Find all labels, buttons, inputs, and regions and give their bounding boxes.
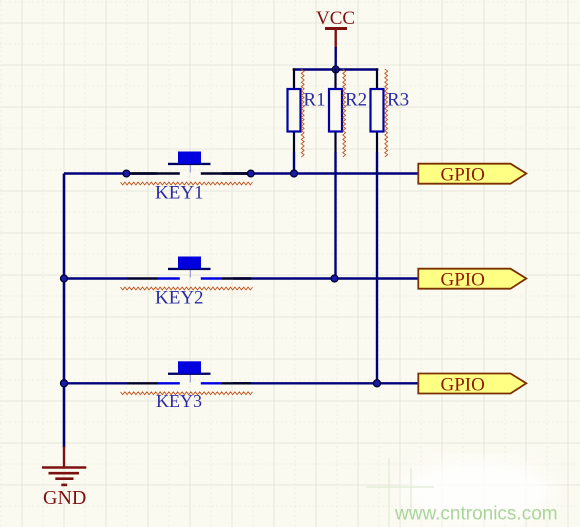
svg-text:VCC: VCC bbox=[316, 8, 355, 29]
wire KEY1 row overlap dark segment left bbox=[127, 172, 158, 174]
junction R3/KEY3 row bbox=[374, 380, 381, 387]
svg-text:GPIO: GPIO bbox=[441, 270, 485, 291]
svg-text:R2: R2 bbox=[345, 90, 367, 111]
wire KEY3 row left segment bbox=[64, 382, 127, 384]
wire KEY1 row left segment bbox=[64, 172, 127, 174]
resistor R2 bbox=[329, 68, 342, 278]
junction left bus/KEY3 row bbox=[61, 380, 68, 387]
wire VCC stem bbox=[335, 47, 337, 70]
resistor R3 bbox=[371, 68, 384, 383]
pin dot KEY1 left terminal bbox=[123, 170, 130, 177]
wire KEY1 row right segment bbox=[233, 172, 419, 174]
resistor R1 bbox=[288, 68, 301, 173]
pushbutton KEY1 bbox=[127, 152, 251, 174]
svg-text:KEY2: KEY2 bbox=[155, 288, 204, 309]
wire top bus bbox=[293, 68, 379, 71]
watermark backdrop glow bbox=[403, 460, 553, 524]
wire KEY3 row overlap dark segment right bbox=[222, 382, 251, 384]
junction R2/KEY2 row bbox=[331, 275, 338, 282]
svg-text:GPIO: GPIO bbox=[441, 374, 485, 395]
port GPIO3 bbox=[418, 374, 526, 394]
port GPIO2 bbox=[418, 269, 526, 289]
svg-text:GND: GND bbox=[43, 487, 86, 509]
wire KEY2 row overlap dark segment right bbox=[222, 277, 251, 279]
svg-text:www.cntronics.com: www.cntronics.com bbox=[394, 504, 558, 525]
svg-text:R3: R3 bbox=[387, 90, 409, 111]
compile-mask zigzag at R1 bbox=[301, 69, 304, 157]
watermark logo lines bbox=[366, 458, 434, 527]
power symbol VCC bbox=[325, 29, 347, 49]
pin dot KEY1 right terminal bbox=[247, 170, 254, 177]
compile-mask zigzag under KEY1 bbox=[121, 182, 253, 185]
port GPIO1 bbox=[418, 164, 526, 184]
wire KEY1 row overlap dark segment right bbox=[222, 172, 251, 174]
junction R1/KEY1 row bbox=[291, 170, 298, 177]
compile-mask zigzag at R2 bbox=[343, 69, 346, 157]
pushbutton KEY3 bbox=[158, 361, 223, 383]
wire KEY2 row left segment bbox=[64, 277, 127, 279]
junction left bus/KEY2 row bbox=[61, 275, 68, 282]
ground symbol GND bbox=[42, 447, 86, 485]
wire left bus bbox=[63, 174, 66, 448]
wire KEY2 row right segment bbox=[233, 277, 419, 279]
svg-text:KEY1: KEY1 bbox=[155, 183, 204, 204]
compile-mask zigzag under KEY2 bbox=[121, 287, 253, 290]
svg-text:R1: R1 bbox=[303, 90, 325, 111]
wire KEY2 row overlap dark segment left bbox=[127, 277, 158, 279]
wire KEY3 row overlap dark segment left bbox=[127, 382, 158, 384]
compile-mask zigzag at R3 bbox=[385, 69, 388, 157]
wire KEY3 row right segment bbox=[233, 382, 419, 384]
svg-text:KEY3: KEY3 bbox=[156, 391, 202, 411]
pushbutton KEY2 bbox=[158, 257, 223, 279]
svg-text:GPIO: GPIO bbox=[441, 165, 485, 186]
junction VCC node bbox=[332, 66, 339, 73]
compile-mask zigzag under KEY3 bbox=[121, 392, 253, 395]
